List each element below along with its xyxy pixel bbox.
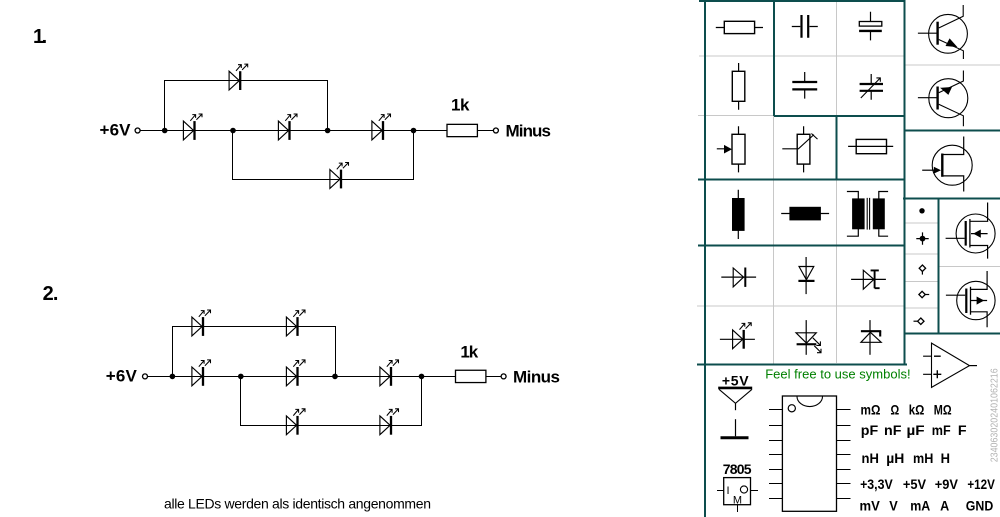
node E — [170, 374, 176, 380]
wire teal border col x904.5 — [903, 0, 905, 366]
LED D11 (circuit 2 bottom branch) — [286, 409, 305, 435]
wire teal border row y333.5 right — [904, 332, 1000, 334]
svg-text:nF: nF — [884, 422, 902, 438]
svg-text:Minus: Minus — [506, 122, 552, 141]
inductor symbol horizontal (4,2) — [781, 207, 829, 220]
wire main line circuit 1 — [140, 130, 447, 132]
wire gray col line x836.5 lower — [836, 180, 838, 363]
terminal Minus (circuit 1) — [493, 128, 498, 133]
terminal +6V (circuit 2) — [143, 374, 148, 379]
wire teal border col x836.5 row3 — [835, 116, 837, 180]
wire gray junction row line y223 — [905, 222, 938, 224]
transistor P-MOSFET Q5 — [946, 271, 995, 327]
svg-text:Ω: Ω — [891, 402, 900, 418]
wire gray col line x773.5 lower — [773, 116, 775, 364]
resistor symbol vertical (2,1) — [732, 63, 745, 110]
wire gray junction row line y281.5 — [905, 281, 938, 283]
svg-text:+6V: +6V — [100, 121, 132, 140]
LED D2 (circuit 1 main) — [278, 114, 297, 140]
terminal symbol lead right — [919, 291, 929, 297]
wire gray junction row line y254 — [905, 253, 938, 255]
LED D10 (circuit 2 top branch) — [286, 310, 305, 336]
svg-text:+3,3V: +3,3V — [860, 476, 893, 492]
svg-text:mΩ: mΩ — [861, 402, 881, 418]
resistor R1 1k (circuit 1) — [447, 124, 477, 136]
svg-text:alle LEDs werden als identisch: alle LEDs werden als identisch angenomme… — [164, 496, 431, 512]
wire resistor to minus terminal (circuit 2) — [486, 376, 501, 378]
svg-text:mH: mH — [913, 450, 933, 466]
diode symbol horizontal (5,1) — [721, 268, 756, 287]
node D — [411, 128, 417, 134]
IC pins left — [769, 410, 783, 499]
LED D1 (circuit 1 main) — [183, 114, 202, 140]
wire teal border row y179.5 — [698, 178, 905, 180]
polarized capacitor symbol vertical (1,3) — [859, 12, 882, 41]
power symbol +5V — [718, 372, 752, 410]
transistor N-MOSFET Q4 — [946, 203, 996, 259]
svg-text:A: A — [940, 498, 949, 514]
trimmer capacitor symbol vertical (2,3) — [860, 74, 883, 100]
wire resistor to minus terminal (circuit 1) — [478, 130, 494, 132]
transistor NPN Q1 — [918, 5, 967, 59]
svg-text:+12V: +12V — [967, 476, 995, 492]
wire gray col line x836.5 top — [836, 2, 838, 116]
wire gray row line y115.5 left — [698, 115, 774, 117]
wire teal border top y1 — [699, 0, 905, 2]
svg-text:+6V: +6V — [106, 366, 138, 385]
node C — [325, 128, 331, 134]
svg-text:µF: µF — [907, 422, 926, 438]
resistor R2 1k (circuit 2) — [456, 370, 486, 382]
svg-text:kΩ: kΩ — [909, 402, 925, 418]
terminal symbol lead left — [914, 318, 925, 324]
zener diode symbol vertical (6,3) — [861, 320, 881, 355]
node G — [332, 374, 338, 380]
diode symbol vertical (5,2) — [798, 257, 814, 294]
svg-text:V: V — [889, 498, 898, 514]
svg-text:1k: 1k — [460, 342, 478, 361]
svg-text:pF: pF — [861, 422, 879, 438]
node A — [162, 128, 168, 134]
transistor JFET Q3 — [922, 137, 972, 192]
junction symbol crossing with dot — [916, 232, 928, 244]
wire teal border col x938.5 — [937, 199, 939, 335]
wire gray junction row line y308 — [905, 307, 938, 309]
capacitor symbol horizontal (1,2) — [792, 15, 818, 38]
LED D5 (circuit 1 bottom branch) — [330, 163, 349, 189]
IC U1 DIP package — [769, 396, 851, 511]
terminal +6V (circuit 1) — [135, 128, 140, 133]
LED symbol horizontal (6,1) — [720, 323, 755, 349]
svg-text:+5V: +5V — [903, 476, 927, 492]
wire top branch circuit 2 — [173, 327, 336, 377]
wire gray transistor row line y64.8 — [905, 64, 1000, 66]
inductor symbol vertical (4,1) — [733, 190, 745, 239]
potentiometer symbol vertical (3,2) — [782, 126, 817, 172]
LED D6 (circuit 2 main) — [192, 360, 211, 386]
wire teal border row y364.5 — [697, 363, 907, 365]
photoresistor symbol vertical (3,1) — [717, 126, 745, 172]
svg-text:mF: mF — [932, 422, 951, 438]
LED D8 (circuit 2 main) — [380, 360, 399, 386]
svg-text:+9V: +9V — [935, 476, 959, 492]
svg-text:7805: 7805 — [723, 461, 752, 477]
svg-text:1k: 1k — [451, 95, 470, 114]
resistor symbol horizontal (1,1) — [716, 21, 763, 33]
wire teal border row y130.5 right — [904, 129, 1000, 131]
svg-text:+5V: +5V — [722, 372, 749, 388]
LED D4 (circuit 1 top branch) — [229, 64, 248, 90]
svg-text:µH: µH — [886, 450, 904, 466]
wire teal border left x705 — [704, 0, 706, 517]
op-amp U3 — [923, 343, 977, 387]
LED symbol vertical (6,2) — [796, 320, 821, 355]
terminal symbol plain — [919, 265, 925, 275]
zener diode symbol horizontal (5,3) — [851, 270, 886, 289]
LED D7 (circuit 2 main) — [286, 360, 305, 386]
wire gray row line y56 — [699, 55, 904, 57]
capacitor symbol vertical (2,2) — [792, 72, 817, 99]
svg-text:I: I — [727, 485, 730, 497]
LED D12 (circuit 2 bottom branch) — [380, 409, 399, 435]
wire main line circuit 2 — [148, 376, 456, 378]
wire bottom branch circuit 2 — [241, 377, 422, 426]
wire teal border row y198.5 right — [903, 197, 1000, 199]
transformer symbol (4,3) — [847, 192, 888, 237]
junction symbol solder dot — [919, 208, 924, 213]
wire gray row line y305.8 — [697, 305, 904, 307]
svg-text:2.: 2. — [43, 283, 59, 305]
ground symbol — [721, 419, 749, 438]
node B — [230, 128, 236, 134]
svg-text:1.: 1. — [33, 26, 47, 48]
LED D9 (circuit 2 top branch) — [192, 310, 211, 336]
wire teal border row y245.5 — [698, 244, 905, 246]
svg-text:mA: mA — [910, 498, 930, 514]
wire top branch circuit 1 — [165, 81, 328, 131]
svg-text:H: H — [941, 450, 950, 466]
voltage regulator U2 7805 — [717, 461, 758, 512]
svg-text:F: F — [958, 422, 967, 438]
wire gray mosfet row line y266.3 — [939, 265, 1000, 267]
wire bottom branch circuit 1 — [233, 131, 414, 180]
svg-text:mV: mV — [860, 498, 881, 514]
node F — [238, 374, 244, 380]
svg-text:2340630202401062216: 2340630202401062216 — [989, 368, 1000, 462]
svg-text:nH: nH — [862, 450, 879, 466]
wire teal border row y116 — [774, 115, 905, 117]
svg-text:MΩ: MΩ — [934, 402, 952, 418]
terminal Minus (circuit 2) — [501, 374, 506, 379]
svg-text:GND: GND — [966, 498, 994, 514]
fuse symbol (3,3) — [848, 139, 893, 153]
wire teal border col x774 — [773, 0, 775, 116]
svg-text:Feel free to use symbols!: Feel free to use symbols! — [765, 367, 910, 382]
IC pins right — [837, 410, 851, 499]
transistor PNP Q2 — [918, 71, 968, 127]
node H — [419, 374, 425, 380]
LED D3 (circuit 1 main) — [372, 114, 391, 140]
svg-text:Minus: Minus — [513, 367, 560, 386]
